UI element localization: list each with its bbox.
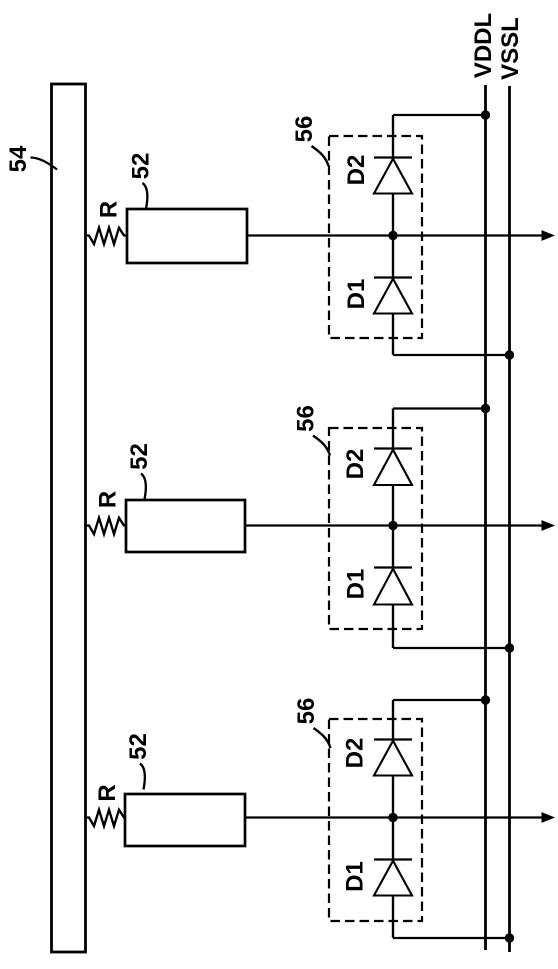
leader line from label 52 to box (block 3) [140, 764, 145, 790]
wire to VSSL (block 1) [393, 354, 510, 356]
svg-text:R: R [94, 784, 121, 801]
leader line from label 56 to dashed box (block 2) [313, 436, 330, 456]
svg-text:D2: D2 [342, 449, 369, 480]
svg-text:D2: D2 [343, 155, 370, 186]
leader line from label 56 to dashed box (block 1) [312, 146, 329, 166]
svg-text:VDDL: VDDL [470, 13, 497, 78]
svg-text:D1: D1 [343, 569, 370, 600]
diode D1 (block 2) [374, 568, 412, 605]
ESD protection cell 56 dashed box (block 2) [329, 428, 422, 629]
junction node dot (block 3) [388, 813, 397, 822]
svg-text:R: R [95, 491, 122, 508]
wire to VSSL (block 3) [393, 937, 510, 939]
junction dot on VSSL (block 3) [505, 933, 514, 942]
VSSL supply line [508, 86, 511, 952]
output wire with arrow (block 3) [245, 812, 555, 823]
ESD protection cell 56 dashed box (block 1) [329, 136, 422, 338]
diode branch vertical wire (block 2) [392, 409, 394, 649]
svg-text:VSSL: VSSL [497, 17, 524, 80]
diode D2 (block 3) [374, 740, 412, 776]
ESD protection cell 56 dashed box (block 3) [329, 719, 422, 921]
VDDL supply line [484, 85, 487, 950]
output wire with arrow (block 1) [247, 230, 555, 241]
diode branch vertical wire (block 1) [392, 115, 394, 355]
driver block 52 (block 2) [126, 500, 245, 552]
svg-text:D2: D2 [342, 738, 369, 769]
junction dot on VDDL (block 1) [481, 110, 490, 119]
junction node dot (block 1) [388, 231, 397, 240]
leader line from label 56 to dashed box (block 3) [314, 728, 331, 748]
svg-text:52: 52 [125, 733, 152, 760]
junction dot on VSSL (block 2) [505, 643, 514, 652]
diode D1 (block 1) [374, 278, 412, 314]
diode D2 (block 1) [374, 158, 412, 194]
resistor R (block 2) [86, 518, 127, 534]
wire to VDDL (block 3) [393, 699, 486, 701]
leader line from label 52 to box (block 1) [143, 183, 148, 209]
diode D2 (block 2) [374, 449, 412, 486]
junction dot on VSSL (block 1) [505, 350, 514, 359]
diode D1 (block 3) [374, 860, 412, 896]
diode branch vertical wire (block 3) [392, 700, 394, 938]
wire to VDDL (block 1) [393, 114, 486, 116]
svg-text:54: 54 [5, 145, 32, 172]
junction dot on VDDL (block 3) [481, 695, 490, 704]
svg-text:R: R [96, 201, 123, 218]
junction node dot (block 2) [388, 521, 397, 530]
leader line from label 54 to bar [31, 158, 58, 170]
wire to VSSL (block 2) [393, 647, 510, 649]
junction dot on VDDL (block 2) [481, 404, 490, 413]
leader line from label 52 to box (block 2) [141, 474, 146, 500]
svg-text:52: 52 [126, 443, 153, 470]
svg-text:D1: D1 [342, 861, 369, 892]
wire to VDDL (block 2) [393, 407, 486, 409]
resistor R (block 3) [86, 810, 126, 826]
svg-text:52: 52 [128, 153, 155, 180]
svg-text:56: 56 [293, 698, 320, 725]
svg-text:56: 56 [293, 405, 320, 432]
driver block 52 (block 3) [125, 794, 245, 846]
svg-text:D1: D1 [343, 279, 370, 310]
driver block 52 (block 1) [127, 209, 247, 263]
resistor R (block 1) [86, 228, 128, 244]
output wire with arrow (block 2) [245, 520, 555, 531]
svg-text:56: 56 [291, 116, 318, 143]
signal line bus bar 54 [52, 84, 86, 952]
